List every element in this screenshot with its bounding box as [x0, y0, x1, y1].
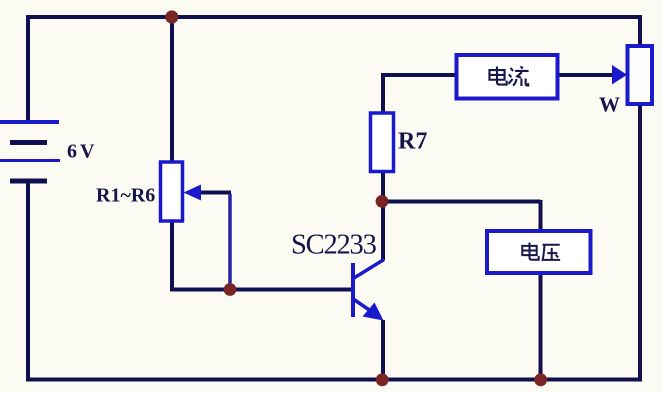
- svg-text:6V: 6V: [67, 141, 97, 163]
- svg-text:W: W: [599, 93, 620, 117]
- svg-text:R1~R6: R1~R6: [96, 185, 155, 207]
- svg-text:SC2233: SC2233: [291, 230, 377, 261]
- svg-text:R7: R7: [398, 129, 427, 155]
